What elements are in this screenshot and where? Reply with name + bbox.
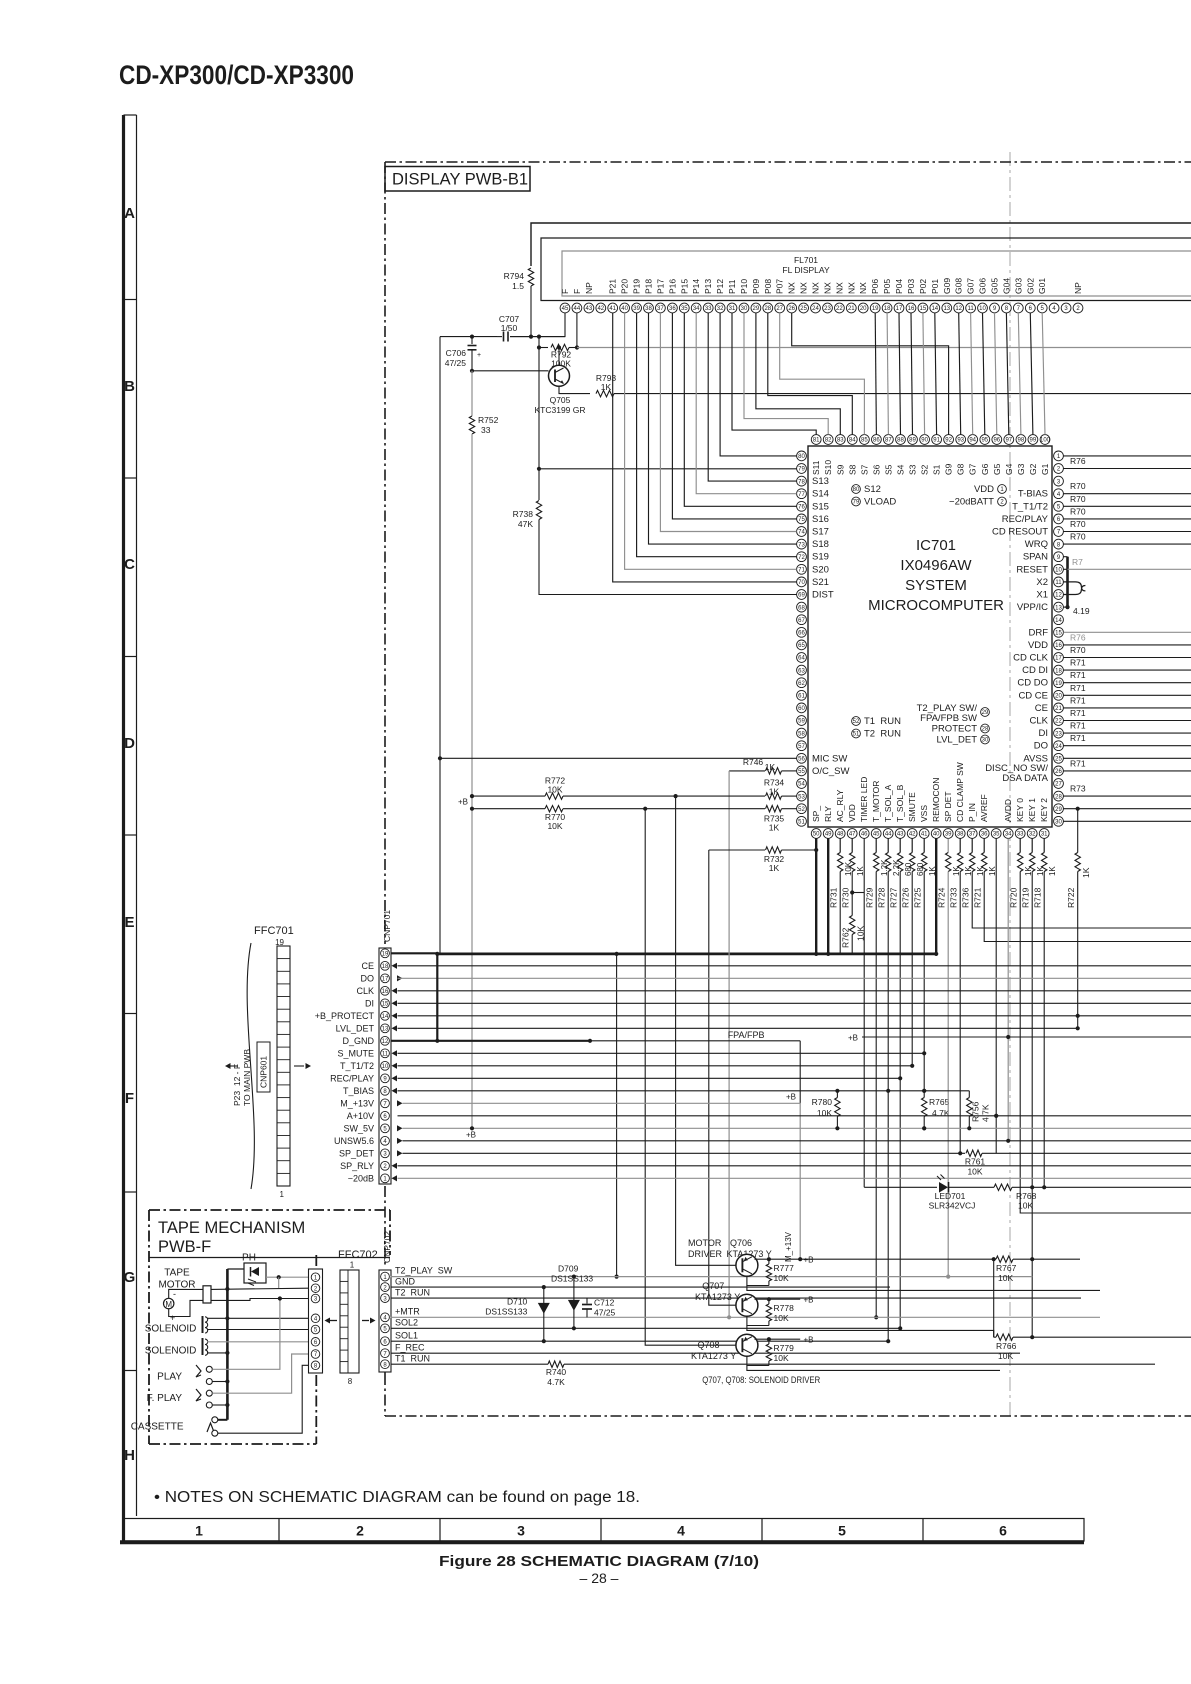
svg-text:59: 59 [798, 719, 805, 725]
wire border below CNP702 [384, 1372, 386, 1374]
svg-text:R71: R71 [1070, 658, 1086, 668]
svg-text:R71: R71 [1070, 708, 1086, 718]
svg-text:R726: R726 [901, 887, 911, 908]
wire net T2_PLAY SW [391, 1276, 1033, 1278]
svg-text:R752: R752 [478, 415, 499, 425]
svg-text:• NOTES ON SCHEMATIC DIAGRAM c: • NOTES ON SCHEMATIC DIAGRAM can be foun… [154, 1489, 640, 1506]
svg-text:R779: R779 [774, 1343, 795, 1353]
wire PH to pin1 [266, 1276, 309, 1278]
svg-text:R7: R7 [1072, 557, 1083, 567]
svg-text:41: 41 [921, 832, 928, 838]
svg-text:82: 82 [825, 438, 832, 444]
svg-text:P_IN: P_IN [967, 803, 977, 822]
resistor R732 [766, 847, 782, 853]
svg-text:P20: P20 [620, 279, 630, 294]
svg-text:KTA1273 Y: KTA1273 Y [691, 1351, 736, 1361]
wire IC right pin 25 [1063, 757, 1191, 759]
wire Q706 collector [747, 1276, 769, 1285]
svg-text:34: 34 [1005, 832, 1012, 838]
svg-text:R730: R730 [841, 887, 851, 908]
wire DRF pin 15 grey [1063, 631, 1191, 633]
svg-text:CLK: CLK [1030, 716, 1049, 727]
svg-text:G2: G2 [1028, 463, 1038, 475]
svg-text:12: 12 [382, 1039, 389, 1045]
op-amp U1 IC701 IX0496AW system microcomputer body [808, 446, 1052, 827]
svg-text:KEY 2: KEY 2 [1039, 798, 1049, 822]
svg-text:R738: R738 [513, 509, 534, 519]
svg-text:13: 13 [1055, 605, 1062, 611]
svg-text:+B: +B [804, 1256, 814, 1265]
svg-text:IX0496AW: IX0496AW [900, 557, 972, 574]
wire IC right pin 20 [1063, 694, 1191, 696]
svg-text:E: E [124, 914, 134, 931]
svg-text:S_MUTE: S_MUTE [337, 1048, 374, 1058]
resistor R718 [1043, 838, 1045, 852]
FL701 pin row [560, 303, 570, 313]
svg-text:1K: 1K [928, 866, 937, 876]
svg-text:X2: X2 [1036, 577, 1048, 588]
svg-text:DS1SS133: DS1SS133 [485, 1307, 527, 1317]
svg-text:14: 14 [1055, 618, 1062, 624]
svg-text:D: D [124, 735, 135, 752]
wire L-drops FL P11-P07 to IC top pins [732, 313, 816, 435]
svg-text:A+10V: A+10V [347, 1111, 374, 1121]
svg-text:15: 15 [1055, 631, 1062, 637]
svg-text:G4: G4 [1004, 463, 1014, 475]
svg-text:PH: PH [242, 1253, 256, 1264]
svg-text:1: 1 [195, 1523, 203, 1539]
svg-text:37: 37 [969, 832, 976, 838]
svg-text:FL701: FL701 [794, 255, 818, 265]
svg-text:15: 15 [920, 306, 927, 312]
capacitor C706 [471, 337, 473, 344]
svg-text:RESET: RESET [1016, 564, 1048, 575]
wire IC right pin 22 [1063, 720, 1191, 722]
svg-text:S8: S8 [847, 464, 857, 475]
svg-text:30: 30 [741, 306, 748, 312]
svg-text:P08: P08 [763, 279, 773, 294]
wire pin35 column to R761 right [995, 838, 997, 1153]
svg-text:G8: G8 [956, 463, 966, 475]
svg-text:77: 77 [798, 492, 805, 498]
svg-text:33: 33 [705, 306, 712, 312]
svg-text:1K: 1K [769, 863, 780, 873]
svg-text:12: 12 [955, 306, 962, 312]
svg-text:98: 98 [1018, 438, 1025, 444]
svg-text:19: 19 [872, 306, 879, 312]
svg-text:P18: P18 [644, 279, 654, 294]
svg-text:23: 23 [824, 306, 831, 312]
svg-text:25: 25 [800, 306, 807, 312]
svg-text:8: 8 [348, 1377, 353, 1386]
svg-text:42: 42 [597, 306, 604, 312]
svg-text:P17: P17 [655, 279, 665, 294]
wire D709 column [616, 954, 618, 1277]
svg-text:AVDD: AVDD [1003, 799, 1013, 822]
svg-text:6: 6 [999, 1523, 1007, 1539]
resistor R778 [768, 1299, 770, 1304]
svg-text:REC/PLAY: REC/PLAY [330, 1073, 374, 1083]
svg-text:R70: R70 [1070, 506, 1086, 516]
svg-text:16: 16 [908, 306, 915, 312]
svg-text:G3: G3 [1016, 463, 1026, 475]
svg-text:30: 30 [982, 738, 989, 744]
svg-text:46: 46 [861, 832, 868, 838]
svg-text:71: 71 [798, 568, 805, 574]
svg-text:NP: NP [584, 282, 594, 294]
wire straight drops FL to IC top pins [875, 313, 876, 435]
svg-text:12: 12 [1055, 593, 1062, 599]
svg-text:SOLENOID: SOLENOID [145, 1346, 197, 1357]
svg-text:66: 66 [798, 631, 805, 637]
svg-text:R71: R71 [1070, 683, 1086, 693]
svg-text:79: 79 [853, 500, 860, 506]
resistor R761 [966, 1150, 982, 1156]
resistor R746 [766, 768, 782, 774]
svg-text:54: 54 [798, 782, 805, 788]
svg-text:+B: +B [848, 1034, 858, 1043]
svg-text:CD DI: CD DI [1022, 665, 1048, 676]
IC701 top pins [811, 435, 821, 445]
svg-text:FFC701: FFC701 [254, 925, 294, 937]
capacitor C707 [503, 332, 505, 342]
svg-text:78: 78 [798, 479, 805, 485]
svg-text:44: 44 [574, 306, 581, 312]
diode D710 [543, 1287, 545, 1341]
svg-text:NX: NX [823, 282, 833, 294]
svg-text:G1: G1 [1040, 463, 1050, 475]
svg-text:63: 63 [798, 668, 805, 674]
wire SP pin 50 column [815, 838, 817, 954]
wire TIMER LED column [863, 838, 865, 1187]
svg-text:33: 33 [1017, 832, 1024, 838]
svg-text:AVREF: AVREF [979, 794, 989, 822]
svg-text:R76: R76 [1070, 632, 1086, 642]
svg-text:32: 32 [717, 306, 724, 312]
svg-text:19: 19 [1055, 681, 1062, 687]
svg-text:31: 31 [1041, 832, 1048, 838]
svg-text:1K: 1K [769, 787, 780, 797]
svg-text:T_MOTOR: T_MOTOR [871, 781, 881, 822]
wire SPAN RESET VPP bracket [1063, 556, 1067, 558]
svg-text:S15: S15 [812, 501, 829, 512]
svg-text:S21: S21 [812, 577, 829, 588]
svg-text:DI: DI [365, 998, 374, 1008]
IC701 right pins [1054, 451, 1064, 461]
svg-text:VLOAD: VLOAD [864, 497, 896, 508]
svg-text:Figure 28 SCHEMATIC DIAGRAM (7: Figure 28 SCHEMATIC DIAGRAM (7/10) [439, 1553, 759, 1570]
svg-text:SW_5V: SW_5V [343, 1123, 374, 1133]
svg-text:LED701: LED701 [935, 1191, 966, 1201]
svg-text:T_T1/T2: T_T1/T2 [1012, 501, 1048, 512]
resistor R779 [768, 1339, 770, 1344]
wire motor to fuse [169, 1289, 203, 1298]
svg-text:4.7K: 4.7K [547, 1377, 565, 1387]
svg-text:R725: R725 [913, 887, 923, 908]
wire IC right pin 19 [1063, 682, 1191, 684]
wire +B rail with R767 [800, 1258, 996, 1260]
wire C707 left to GND column [440, 336, 497, 338]
svg-text:10K: 10K [967, 1166, 982, 1176]
wire net LVL_DET [398, 1027, 1078, 1029]
svg-text:CD CE: CD CE [1018, 690, 1048, 701]
svg-text:R71: R71 [1070, 670, 1086, 680]
resistor R793 [596, 390, 614, 396]
wire IC pin 6 with resistor label [1063, 518, 1191, 520]
svg-text:10K: 10K [547, 821, 562, 831]
resistor R720 [1019, 838, 1021, 852]
svg-text:S18: S18 [812, 539, 829, 550]
svg-text:1K: 1K [765, 762, 776, 772]
svg-text:R756: R756 [971, 1101, 981, 1122]
wire net T1_RUN with R740 [391, 1363, 549, 1365]
svg-text:80: 80 [853, 487, 860, 493]
svg-text:96: 96 [993, 438, 1000, 444]
svg-text:R719: R719 [1021, 887, 1031, 908]
wire KEY0 column corner [1020, 872, 1191, 1214]
wire net SOL2 [391, 1327, 901, 1329]
svg-text:+B: +B [786, 1092, 796, 1101]
svg-text:CD-XP300/CD-XP3300: CD-XP300/CD-XP3300 [119, 60, 354, 90]
svg-text:T2 RUN: T2 RUN [395, 1287, 430, 1297]
svg-text:CD RESOUT: CD RESOUT [992, 527, 1048, 538]
wire net S_MUTE [398, 1052, 925, 1054]
svg-text:+B_PROTECT: +B_PROTECT [315, 1011, 375, 1021]
svg-text:DIST: DIST [812, 590, 834, 601]
TAPE MECHANISM PWB-F border [149, 1209, 390, 1211]
svg-text:NP: NP [1073, 282, 1083, 294]
svg-text:G08: G08 [954, 278, 964, 294]
svg-text:69: 69 [798, 593, 805, 599]
svg-text:P11: P11 [727, 279, 737, 294]
svg-text:38: 38 [645, 306, 652, 312]
svg-text:R729: R729 [865, 887, 875, 908]
svg-text:CD CLK: CD CLK [1013, 653, 1049, 664]
svg-text:CNP701: CNP701 [382, 910, 392, 942]
resistor R726 [911, 838, 913, 852]
svg-text:G07: G07 [966, 278, 976, 294]
svg-text:53: 53 [798, 794, 805, 800]
svg-text:99: 99 [1030, 438, 1037, 444]
svg-text:SOLENOID: SOLENOID [145, 1324, 197, 1335]
svg-text:56: 56 [798, 757, 805, 763]
svg-text:5: 5 [838, 1523, 846, 1539]
svg-text:G5: G5 [992, 463, 1002, 475]
wire VLOAD pin 79 [539, 468, 797, 470]
svg-text:CD DO: CD DO [1017, 678, 1048, 689]
fuse box [203, 1286, 211, 1303]
resistor R719 [1031, 838, 1033, 852]
svg-text:40: 40 [621, 306, 628, 312]
svg-text:G05: G05 [990, 278, 1000, 294]
svg-text:CD CLAMP SW: CD CLAMP SW [955, 762, 965, 822]
svg-text:IC701: IC701 [916, 537, 956, 554]
svg-text:62: 62 [798, 681, 805, 687]
resistor R724 [947, 838, 949, 852]
resistor R740 [548, 1361, 564, 1367]
svg-text:64: 64 [798, 656, 805, 662]
svg-text:GND: GND [395, 1276, 416, 1286]
wire IC right pin 18 [1063, 669, 1191, 671]
wire SP DET grey column [947, 872, 949, 1277]
tape connector strip [309, 1269, 323, 1373]
wire base column Q707 [709, 850, 737, 1305]
svg-text:10: 10 [979, 306, 986, 312]
svg-text:CASSETTE: CASSETTE [131, 1422, 184, 1433]
svg-text:P10: P10 [739, 279, 749, 294]
svg-text:52: 52 [853, 719, 860, 725]
svg-text:40: 40 [933, 832, 940, 838]
svg-text:R766: R766 [996, 1341, 1017, 1351]
svg-text:R768: R768 [1016, 1191, 1037, 1201]
wire FL F pin to C707 node [510, 313, 565, 337]
svg-text:G02: G02 [1025, 278, 1035, 294]
svg-text:F: F [572, 289, 582, 294]
svg-text:84: 84 [849, 438, 856, 444]
wire KEY1 column [1031, 872, 1033, 1338]
svg-text:H: H [124, 1447, 135, 1464]
grid fold line [1009, 152, 1011, 1420]
wire FL F pin 44 drop [576, 313, 578, 348]
svg-text:28: 28 [982, 727, 989, 733]
svg-text:93: 93 [957, 438, 964, 444]
svg-text:NX: NX [799, 282, 809, 294]
DISPLAY PWB-B1 title box [385, 167, 530, 192]
wire Q708 collector [747, 1356, 769, 1365]
svg-text:G7: G7 [968, 463, 978, 475]
CNP601 to-main arrow [225, 1063, 231, 1069]
svg-text:P15: P15 [679, 279, 689, 294]
svg-text:1/50: 1/50 [501, 323, 518, 333]
wire F.PLAY top [212, 1354, 308, 1393]
svg-text:10: 10 [382, 1064, 389, 1070]
wire solenoid2 to ground [207, 1352, 227, 1354]
svg-text:R761: R761 [965, 1156, 986, 1166]
svg-text:39: 39 [945, 832, 952, 838]
svg-text:R777: R777 [774, 1263, 795, 1273]
diode LED701 [864, 1186, 937, 1188]
wire RESET grey to right [1068, 568, 1191, 570]
svg-text:11: 11 [1055, 580, 1062, 586]
svg-text:C712: C712 [594, 1298, 615, 1308]
svg-text:42: 42 [909, 832, 916, 838]
svg-text:36: 36 [669, 306, 676, 312]
resistor R727 [899, 838, 901, 852]
svg-text:AC_RLY: AC_RLY [835, 789, 845, 822]
wire net F_REC [391, 1352, 1021, 1354]
resistor R756 [968, 1091, 970, 1098]
wire net SOL1 [391, 1340, 889, 1342]
svg-text:29: 29 [1055, 807, 1062, 813]
svg-text:88: 88 [897, 438, 904, 444]
svg-text:LVL_DET: LVL_DET [937, 735, 978, 746]
svg-text:R724: R724 [937, 887, 947, 908]
svg-text:43: 43 [586, 306, 593, 312]
frame bottom column strip [124, 1519, 1085, 1542]
FL701 display outline outer [531, 223, 1191, 266]
svg-text:70: 70 [798, 580, 805, 586]
svg-text:P16: P16 [667, 279, 677, 294]
frame left border bar [122, 115, 125, 1541]
svg-text:SLR342VCJ: SLR342VCJ [929, 1201, 976, 1211]
svg-text:35: 35 [993, 832, 1000, 838]
svg-text:M_+13V: M_+13V [340, 1098, 374, 1108]
svg-text:19: 19 [382, 952, 389, 958]
svg-text:24: 24 [1055, 744, 1062, 750]
svg-text:1K: 1K [1048, 866, 1057, 876]
svg-text:73: 73 [798, 542, 805, 548]
svg-text:S4: S4 [896, 464, 906, 475]
svg-text:B: B [124, 378, 135, 395]
resistor R735 [766, 806, 782, 812]
wire S12 feed column [538, 337, 540, 500]
svg-text:DISPLAY PWB-B1: DISPLAY PWB-B1 [392, 171, 528, 189]
FL701 display outline middle [541, 238, 1191, 301]
svg-text:R762: R762 [841, 927, 851, 948]
svg-text:13: 13 [382, 1027, 389, 1033]
resistor R765 [922, 1098, 927, 1117]
svg-text:67: 67 [798, 618, 805, 624]
svg-text:28: 28 [1055, 794, 1062, 800]
svg-text:10K: 10K [1018, 1201, 1033, 1211]
svg-text:DO: DO [361, 973, 375, 983]
svg-text:17: 17 [896, 306, 903, 312]
svg-text:28: 28 [764, 306, 771, 312]
svg-text:DO: DO [1034, 741, 1048, 752]
svg-text:SOL1: SOL1 [395, 1330, 418, 1340]
svg-text:65: 65 [798, 643, 805, 649]
svg-text:TO MAIN PWB: TO MAIN PWB [242, 1049, 252, 1106]
svg-text:27: 27 [1055, 782, 1062, 788]
svg-text:R733: R733 [949, 887, 959, 908]
wire P_IN column corner right [972, 872, 1191, 929]
svg-text:10K: 10K [817, 1108, 832, 1118]
svg-text:T2_PLAY SW: T2_PLAY SW [395, 1266, 453, 1276]
wire net GND [391, 1286, 891, 1288]
svg-text:FPA/FPB SW: FPA/FPB SW [920, 713, 977, 724]
wire R793 to right [614, 393, 1191, 395]
svg-text:SP_RLY: SP_RLY [340, 1161, 374, 1171]
svg-text:1.5: 1.5 [512, 281, 524, 291]
wire +B feed line [862, 1036, 1191, 1038]
svg-text:X1: X1 [1036, 590, 1048, 601]
wire solenoid1 to pin5 [207, 1329, 309, 1331]
svg-text:87: 87 [885, 438, 892, 444]
svg-text:S14: S14 [812, 489, 829, 500]
svg-text:R780: R780 [812, 1097, 833, 1107]
svg-text:S10: S10 [823, 460, 833, 475]
svg-text:F_REC: F_REC [395, 1342, 425, 1352]
svg-text:S2: S2 [920, 464, 930, 475]
svg-text:16: 16 [382, 989, 389, 995]
svg-text:2: 2 [356, 1523, 364, 1539]
svg-text:P05: P05 [882, 279, 892, 294]
svg-text:11: 11 [382, 1052, 389, 1058]
svg-text:VDD: VDD [847, 804, 857, 822]
svg-text:D710: D710 [507, 1297, 528, 1307]
svg-text:S16: S16 [812, 514, 829, 525]
svg-text:22: 22 [1055, 719, 1062, 725]
svg-text:85: 85 [861, 438, 868, 444]
wire net -20dB [398, 1177, 1191, 1179]
svg-text:DI: DI [1039, 728, 1049, 739]
svg-text:S17: S17 [812, 527, 829, 538]
svg-text:FL DISPLAY: FL DISPLAY [782, 265, 830, 275]
FL701 display outline inner [562, 251, 1191, 296]
svg-text:11: 11 [967, 306, 974, 312]
svg-text:KEY 0: KEY 0 [1015, 798, 1025, 822]
svg-text:T2 RUN: T2 RUN [864, 729, 901, 740]
